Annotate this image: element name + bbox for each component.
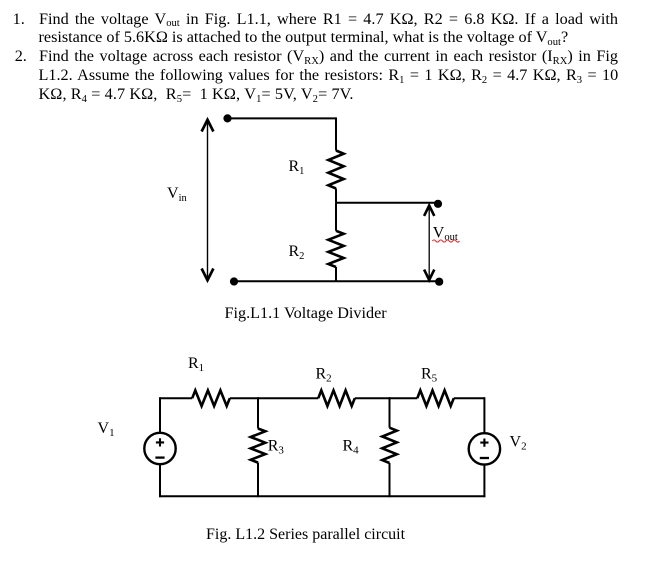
wire bottom horizontal <box>234 280 439 282</box>
wire left vertical bottom <box>159 464 161 497</box>
problem list numbers <box>13 10 25 29</box>
wire R1 bottom lead to junction <box>335 189 337 203</box>
voltage source V2 <box>469 433 500 464</box>
paragraph 1 line 1 <box>39 10 618 29</box>
wire R3 bottom lead <box>257 463 259 498</box>
wire junction down to R2 <box>335 203 337 231</box>
paragraph 2 line 1 <box>39 47 618 66</box>
svg-text:R1: R1 <box>188 355 204 374</box>
svg-text:Fig.L1.1 Voltage Divider: Fig.L1.1 Voltage Divider <box>225 304 388 322</box>
resistor R2 (horizontal zigzag) <box>318 390 355 406</box>
red squiggle under Vout <box>432 240 459 242</box>
resistor R1 (vertical zigzag) <box>328 151 343 189</box>
Vout measurement arrow (double headed) <box>424 206 434 281</box>
node dot top-left <box>223 114 231 122</box>
resistor R2 (vertical zigzag) <box>328 231 343 267</box>
wire top-right segment <box>454 397 485 399</box>
wire right vertical top <box>483 397 485 433</box>
svg-text:R2: R2 <box>316 365 332 384</box>
wire junction to Vout node <box>336 202 438 204</box>
Vin measurement arrow (double headed) <box>202 120 214 280</box>
wire R3 top lead <box>257 397 259 428</box>
paragraph 2 line 3 <box>39 85 354 104</box>
paragraph 2 line 2 <box>39 66 619 85</box>
svg-text:Fig. L1.2 Series parallel circ: Fig. L1.2 Series parallel circuit <box>206 526 406 543</box>
wire bottom horizontal <box>159 495 485 497</box>
svg-text:V2: V2 <box>510 433 527 452</box>
svg-text:Vin: Vin <box>167 185 187 204</box>
voltage source V1 <box>144 433 175 464</box>
resistor R4 (vertical zigzag) <box>382 428 397 463</box>
paragraph 1 line 2 <box>39 28 569 47</box>
svg-text:R3: R3 <box>268 438 285 457</box>
node dot bottom-left <box>230 277 238 285</box>
resistor R3 (vertical zigzag) <box>251 429 266 463</box>
wire right vertical bottom <box>483 465 485 498</box>
wire R4 bottom lead <box>389 463 391 497</box>
wire top-left segment <box>160 397 192 399</box>
wire R4 top lead <box>389 397 391 428</box>
svg-text:V1: V1 <box>98 420 115 439</box>
wire R1 top lead <box>335 117 337 150</box>
svg-text:R5: R5 <box>421 365 438 384</box>
resistor R5 (horizontal zigzag) <box>417 390 454 406</box>
wire top horizontal <box>228 117 337 119</box>
wire R2 bottom lead <box>335 267 337 281</box>
svg-text:R2: R2 <box>289 243 305 262</box>
node dot bottom-right <box>435 278 443 286</box>
svg-text:R4: R4 <box>343 438 360 457</box>
node dot Vout terminal <box>434 200 442 208</box>
wire left vertical top <box>159 397 161 432</box>
wire top between R2 and R5 <box>355 397 418 399</box>
wire top between R1 and R2 <box>230 397 318 399</box>
svg-text:R1: R1 <box>289 158 305 177</box>
resistor R1 (horizontal zigzag) <box>192 390 230 406</box>
